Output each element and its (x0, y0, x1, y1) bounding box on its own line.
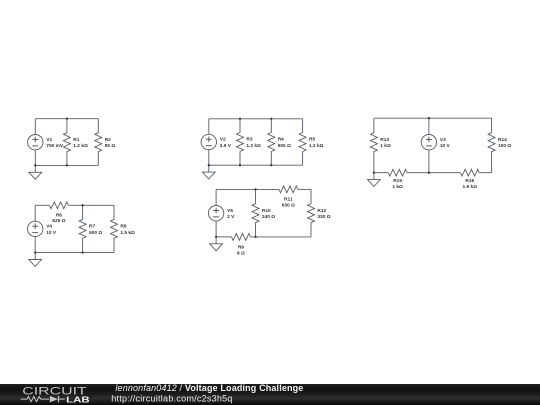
junction R1 bottom (66, 164, 68, 166)
junction V2 ground node (208, 164, 210, 166)
wire bottom rail left segment circuit 5 (216, 236, 231, 238)
wire top rail circuit 2 (209, 118, 303, 120)
junction V5 ground node (215, 236, 217, 238)
voltage source V2 3.6 V (201, 119, 232, 165)
resistor R5 1.2 k&#937; (299, 119, 324, 165)
junction V1 ground node (34, 164, 36, 166)
ground circuit 3 (368, 173, 381, 187)
junction R1 top (66, 118, 68, 120)
wire bottom rail circuit 4 (35, 252, 114, 254)
wire bottom rail mid segment (407, 172, 460, 174)
junction R10 bottom (254, 236, 256, 238)
wire top rail left segment circuit 4 (35, 204, 49, 206)
ground circuit 4 (29, 253, 42, 267)
junction V4 ground node (34, 251, 36, 253)
junction R3 top (239, 118, 241, 120)
resistor R7 500 &#937; (79, 205, 102, 252)
wire bottom rail right segment circuit 5 (250, 236, 311, 238)
wire top rail right segment circuit 4 (68, 204, 114, 206)
wire bottom rail circuit 2 (209, 164, 303, 166)
resistor R3 1.2 k&#937; (237, 119, 262, 165)
wire top rail left segment circuit 5 (216, 188, 279, 190)
junction R4 top (270, 118, 272, 120)
junction R4 bottom (270, 164, 272, 166)
svg-text:http://circuitlab.com/c2s3h5q: http://circuitlab.com/c2s3h5q (111, 393, 232, 403)
resistor R15 1 k&#937; (388, 169, 407, 190)
logo diode (50, 396, 58, 403)
voltage source V3 10 V (421, 118, 450, 173)
ground circuit 1 (29, 165, 42, 179)
wire bottom rail right segment (479, 172, 491, 174)
svg-text:lennonfan0412 / Voltage Loadin: lennonfan0412 / Voltage Loading Challeng… (115, 383, 303, 393)
logo resistor zigzag (21, 397, 49, 402)
resistor R6 625 &#937; (50, 202, 69, 224)
resistor R16 1.9 k&#937; (460, 169, 479, 190)
junction R7 bottom (81, 251, 83, 253)
ground circuit 2 (202, 165, 215, 179)
resistor R8 1.5 k&#937; (111, 205, 136, 252)
wire bottom rail left segment (374, 172, 388, 174)
voltage source V4 10 V (28, 205, 57, 252)
resistor R9 8 &#937; (232, 234, 251, 257)
resistor R2 80 &#937; (95, 119, 116, 166)
wire top rail circuit 3 (374, 117, 492, 119)
wire top rail right segment circuit 5 (298, 188, 311, 190)
resistor R10 240 &#937; (252, 189, 275, 237)
junction V3 top (428, 117, 430, 119)
resistor R1 1.2 k&#937; (63, 119, 88, 166)
footer black bar (0, 384, 540, 405)
ground circuit 5 (210, 237, 223, 251)
junction R7 top (81, 204, 83, 206)
wire bottom rail circuit 1 (35, 164, 98, 166)
voltage source V5 2 V (208, 189, 235, 237)
resistor R12 330 &#937; (308, 189, 331, 237)
svg-text:LAB: LAB (66, 394, 90, 404)
wire top rail circuit 1 (35, 118, 98, 120)
junction R10 top (254, 188, 256, 190)
resistor R4 900 &#937; (268, 119, 291, 165)
voltage source V1 750 mV (28, 119, 64, 166)
junction R13 ground node (373, 172, 375, 174)
resistor R13 1 k&#937; (370, 118, 391, 173)
resistor R14 100 &#937; (488, 118, 511, 173)
junction R3 bottom (239, 164, 241, 166)
junction V3 bottom (428, 172, 430, 174)
resistor R11 630 &#937; (279, 186, 298, 208)
